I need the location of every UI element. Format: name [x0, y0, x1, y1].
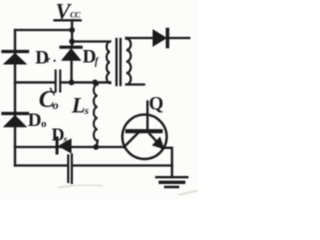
svg-text:L: L	[71, 93, 85, 118]
wire Vcc stub	[71, 20, 73, 30]
wire collector lead	[146, 102, 148, 132]
label Co	[39, 87, 59, 113]
svg-text:o: o	[41, 118, 47, 130]
label Q	[149, 94, 164, 115]
wire junction down to Df	[71, 30, 73, 46]
svg-text:s: s	[84, 105, 89, 117]
wire secondary top to diode	[126, 37, 153, 39]
scan smudge bottom right	[178, 191, 198, 196]
label Ds	[52, 125, 68, 146]
svg-text:D: D	[28, 110, 42, 131]
wire secondary bottom stub	[126, 83, 144, 85]
diode Do	[3, 114, 28, 127]
wire to transformer primary top	[72, 40, 110, 42]
transistor Q	[122, 115, 166, 159]
node junction Ls bottom	[93, 144, 99, 150]
diode Ds with wire to transistor base	[15, 138, 123, 153]
label Vcc	[56, 0, 81, 23]
capacitor Co	[15, 71, 110, 92]
svg-text:f: f	[95, 57, 100, 68]
transformer T1 secondary winding	[126, 38, 131, 85]
node Vcc terminal bar	[55, 19, 81, 21]
scan smudge bottom left	[2, 185, 34, 187]
label Ls	[71, 93, 89, 118]
ground	[156, 177, 187, 187]
diode Dout (top right)	[153, 30, 189, 47]
wire left rail	[14, 30, 16, 166]
node junction at Vcc / top rail	[69, 27, 75, 33]
diode D1	[3, 52, 28, 65]
svg-text:Q: Q	[149, 94, 164, 115]
wire top rail	[15, 29, 72, 31]
capacitor C2 (bottom)	[15, 155, 172, 184]
svg-text:o: o	[53, 98, 59, 112]
diode Df	[61, 47, 81, 82]
node junction Ls top	[92, 80, 98, 86]
node junction primary-top	[69, 39, 75, 45]
scan smudge bottom center	[58, 185, 102, 188]
transformer T1 primary winding	[107, 42, 110, 84]
scan tick above Co	[51, 89, 53, 93]
svg-text:CC: CC	[70, 10, 81, 20]
wire emitter to ground	[162, 148, 172, 177]
transformer T1 core	[117, 39, 121, 85]
node junction Df lead	[69, 80, 75, 86]
inductor Ls	[94, 82, 98, 147]
label Do	[28, 110, 47, 131]
label Df	[83, 46, 100, 67]
svg-text:r: r	[47, 55, 51, 65]
label D1	[35, 47, 56, 68]
